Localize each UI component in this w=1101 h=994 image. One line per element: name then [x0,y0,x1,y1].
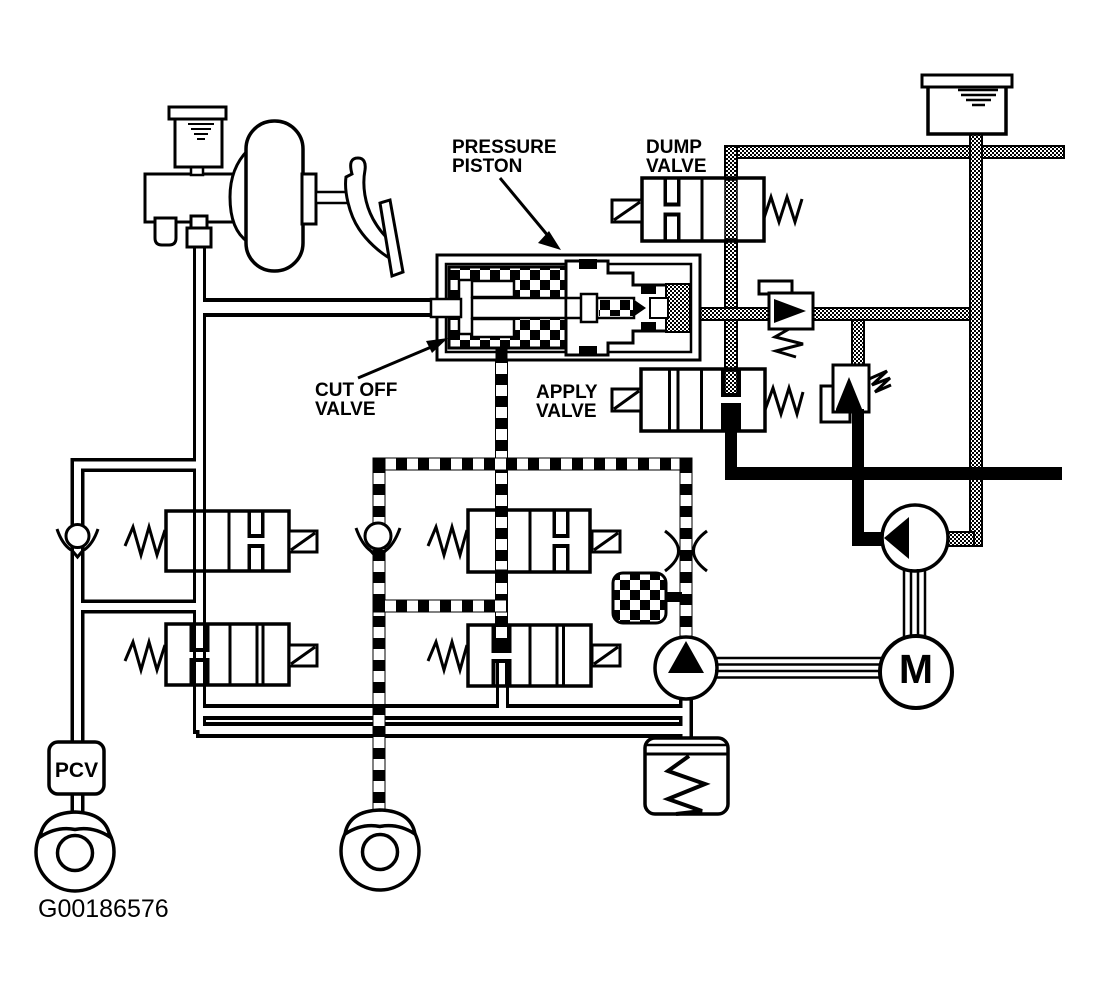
spring of lower-left valve [125,642,165,670]
svg-text:DUMP: DUMP [646,137,702,158]
svg-text:VALVE: VALVE [315,399,376,420]
wire: master cylinder down pipe [193,243,206,734]
solenoid valve: lower-left isolation valve [125,624,317,685]
wire: lower-middle valve to manifold [496,658,509,712]
wire: pump 1 down to accumulator [679,694,693,742]
wire: apply valve output down [725,405,737,480]
spring of V2 [869,371,891,392]
spring of upper-middle valve [428,527,467,555]
wire: stippled line from pressure piston to reservoir drop [690,308,970,320]
accumulator [645,738,728,814]
checkered outlet stub at bottom of cut-off valve [496,348,508,362]
wire: checkered center vertical from cut-off valve [496,360,508,648]
svg-text:PRESSURE: PRESSURE [452,137,557,158]
wire: tee between left pipe and MC pipe [78,600,198,614]
svg-text:PCV: PCV [55,759,98,782]
solenoid of dump valve [612,200,642,222]
wire: thick black main line [725,467,1062,480]
label: DUMP VALVE [646,137,707,177]
spring of upper-left valve [125,527,165,555]
left wheel [36,812,114,891]
brake booster [246,121,303,271]
left outlet port [155,218,176,245]
wire: checkered mid horizontal [373,600,507,612]
piston seals [579,259,597,269]
pedal arm [346,158,397,259]
spring of V1 [775,329,803,357]
label: APPLY VALVE [536,382,598,422]
piston rod [566,298,634,318]
solenoid of lower-middle valve [592,645,620,666]
spring of dump valve [764,197,802,222]
label: CUT OFF VALVE [315,338,448,420]
wire: checkered top horizontal [373,458,692,470]
master cylinder body [145,107,403,276]
spring of accumulator [668,756,705,814]
wire: bottom manifold pipe 2 [196,722,686,738]
relief valve V1 (check valve with right triangle) [759,281,813,357]
solenoid of apply valve [612,389,641,411]
solenoid valve: upper-left isolation valve [125,511,317,571]
wire: left branch to check valve / PCV [78,465,200,745]
svg-text:M: M [899,646,933,692]
orifice / restrictor on checkered line [665,531,707,571]
relief valve V2 (check valve with up triangle) [821,365,891,422]
shaft pump1 to motor [715,658,882,678]
spring of apply valve [765,388,803,414]
solenoid valve: apply valve [612,369,803,431]
right outlet port [191,216,207,230]
label: PRESSURE PISTON [452,137,561,250]
booster bell [230,150,248,242]
solenoid valve: lower-middle isolation valve [428,625,620,686]
center wheel [341,810,419,890]
wire: stippled elbow to pump 2 [946,532,974,546]
wire: checkered right vertical to pump 1 [680,458,692,636]
PCV valve [49,742,104,794]
inlet port from master cylinder [431,299,461,317]
damper chamber (checkered box) [664,592,682,602]
master cylinder reservoir cap [169,107,226,119]
wire: PCV to left wheel [71,790,85,818]
svg-text:APPLY: APPLY [536,382,598,403]
wire: checkered left vertical to center wheel [373,458,385,812]
pressure piston body [566,261,690,355]
wire: stippled return line top horizontal [725,146,1064,158]
shaft pump2 to motor [904,569,925,637]
solenoid valve: upper-middle isolation valve [428,510,620,572]
wire: stippled line from reservoir down [970,134,982,546]
svg-text:CUT OFF: CUT OFF [315,380,397,401]
booster flange [302,174,316,224]
stippled cup [666,284,690,332]
pedal pad [380,200,403,276]
solenoid of lower-left valve [289,645,317,666]
pump 1 [655,637,717,699]
wire: stippled stub down to relief valve V2 [852,320,864,366]
svg-text:PISTON: PISTON [452,156,522,177]
check valve C2 on checkered line [356,523,400,559]
pushrod [316,192,352,203]
wire: relief valve V2 down to pump 2 [852,412,864,546]
motor M [880,636,952,708]
wire: master cylinder to cut-off valve assembly [197,298,440,317]
wire: elbow into pump 2 left port [852,532,886,546]
solenoid valve: dump valve [612,178,802,241]
reservoir (top right) [922,75,1012,134]
svg-text:VALVE: VALVE [646,156,707,177]
spring of lower-middle valve [428,642,467,670]
solenoid of upper-left valve [289,531,317,552]
solenoid of upper-middle valve [592,531,620,552]
pump 2 [882,505,948,571]
svg-text:VALVE: VALVE [536,401,597,422]
svg-text:G00186576: G00186576 [38,895,169,923]
cut-off valve / pressure piston assembly [431,255,700,362]
reservoir stem [191,166,203,175]
master cylinder reservoir cup [175,118,222,167]
cut-off valve checkered block [449,267,566,348]
wire: stippled line down through dump valve to apply valve [725,146,737,394]
check valve C1 on left pipe [57,525,98,558]
wire: bottom manifold pipe 1 [196,704,686,720]
